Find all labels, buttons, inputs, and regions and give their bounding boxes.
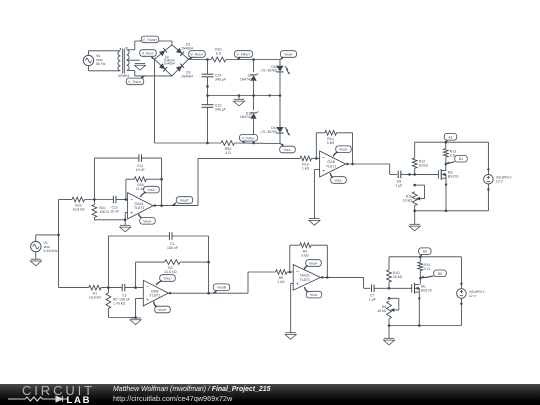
ground below V1 <box>30 259 41 266</box>
svg-text:TL071: TL071 <box>299 278 309 282</box>
svg-text:VoutT: VoutT <box>180 199 189 203</box>
node label Vout+ (OA10 top supply) <box>304 260 321 270</box>
op-amp OA10 TL071 <box>293 265 320 291</box>
node label V_Trans- <box>126 76 145 85</box>
R18 wiper wire <box>413 184 424 199</box>
voltage source Vs (sine 60 Hz) <box>83 51 118 71</box>
svg-text:Vout-: Vout- <box>284 148 292 152</box>
svg-text:10 nF: 10 nF <box>110 210 119 214</box>
svg-text:5 kΩ: 5 kΩ <box>327 141 335 145</box>
node label V_Filter+ <box>235 51 253 60</box>
footer bar <box>0 384 540 405</box>
input trunk wire <box>57 200 60 288</box>
svg-text:V_Rect+: V_Rect+ <box>190 53 203 57</box>
svg-text:1N4742A: 1N4742A <box>240 77 255 81</box>
node label V_Filter- <box>240 135 258 144</box>
MOSFET M1 BS170 <box>412 283 432 294</box>
OA11 + input to ground <box>120 212 131 232</box>
svg-text:150 Ω: 150 Ω <box>100 210 110 214</box>
zener diode D10 1N4742A <box>240 96 258 144</box>
svg-text:Vout+: Vout+ <box>158 308 167 312</box>
node label V_Rect+ <box>189 51 206 60</box>
wire C8 to gate <box>408 173 438 176</box>
feedback wire up from R22 junction <box>94 158 138 199</box>
capacitor C2 100 nF <box>119 284 143 302</box>
node label B0 <box>419 270 446 279</box>
svg-text:A1: A1 <box>448 135 452 139</box>
svg-text:A0: A0 <box>423 250 427 254</box>
node label Vout+ (OA11 bottom supply) <box>139 214 156 224</box>
op-amp OA11 TL071 <box>128 193 153 219</box>
svg-text:10 nF: 10 nF <box>136 168 145 172</box>
svg-text:5 Ω: 5 Ω <box>225 151 231 155</box>
svg-text:−: − <box>130 197 133 203</box>
node label Vout+ (OA9 bottom supply) <box>154 302 171 313</box>
resistor R13 5 Ohm <box>443 142 456 170</box>
op-amp OA9 TL071 <box>143 280 168 306</box>
resistor R11 5 Ohm <box>418 257 431 285</box>
svg-text:1 µF: 1 µF <box>395 184 402 188</box>
resistor R10 20 kOhm <box>387 257 403 289</box>
wire R22 to C12 <box>85 198 114 201</box>
svg-text:1.43 kΩ: 1.43 kΩ <box>113 302 126 306</box>
resistor R12 20 kOhm <box>412 142 428 174</box>
svg-text:Vout+: Vout+ <box>143 219 152 223</box>
svg-text:9.16 kHz: 9.16 kHz <box>44 249 58 253</box>
wire C7 to gate <box>388 287 412 290</box>
node label A1 <box>444 134 457 143</box>
capacitor C12 10 nF <box>110 196 127 214</box>
svg-text:VoutB: VoutB <box>217 286 227 290</box>
node label Vout- (OA10 bottom supply) <box>305 287 322 298</box>
ground below upper driver <box>409 211 420 231</box>
capacitor C10 340 uF <box>202 96 226 144</box>
svg-text:12 V: 12 V <box>496 180 504 184</box>
svg-text:1N4004: 1N4004 <box>181 46 193 50</box>
svg-text:BS170: BS170 <box>448 175 459 179</box>
R8 wiper wire <box>388 297 399 310</box>
M2 source wire <box>445 178 447 211</box>
node label Vout- (bottom) <box>280 144 296 153</box>
transformer center tap to ground <box>130 60 146 70</box>
svg-text:Vout-: Vout- <box>310 293 318 297</box>
svg-text:Vout+: Vout+ <box>284 53 293 57</box>
svg-text:−: − <box>146 285 149 291</box>
svg-text:340 µF: 340 µF <box>215 108 226 112</box>
svg-text:Vout-: Vout- <box>148 188 156 192</box>
capacitor C8 1 uF <box>390 171 410 188</box>
resistor R20 21 kOhm <box>134 177 163 191</box>
OA10 + input to ground <box>285 283 296 339</box>
svg-text:5 kΩ: 5 kΩ <box>301 253 309 257</box>
svg-text:5 Ω: 5 Ω <box>216 52 222 56</box>
wire R21 to ground node <box>94 219 125 221</box>
potentiometer R8 10 kOhm <box>377 301 399 319</box>
wire bridge DC- down to bottom rail <box>154 59 156 143</box>
svg-text:TL071: TL071 <box>134 206 144 210</box>
svg-text:1 µF: 1 µF <box>369 297 376 301</box>
voltage source VSUPPLY 12 V (upper) <box>484 142 513 211</box>
R20 branch wire <box>125 179 135 201</box>
resistor R4 5 kOhm <box>300 243 328 257</box>
diode D2 (bridge top-right) <box>176 48 184 56</box>
diode D4 (bridge bottom-left) <box>159 63 167 71</box>
svg-text:Vout-: Vout- <box>335 179 343 183</box>
svg-text:340 µF: 340 µF <box>215 77 226 81</box>
OA11 output wire <box>153 204 198 206</box>
diode D3 (bridge bottom-right) <box>176 64 184 72</box>
R0 to ground node <box>108 317 135 319</box>
OA9 output wire <box>168 292 248 294</box>
svg-text:V_Trans+: V_Trans+ <box>143 38 158 42</box>
resistor R21 150 Ohm <box>92 200 109 220</box>
voltage source VSUPPLY 12 V (lower) <box>457 257 486 326</box>
bottom rail wire <box>155 142 281 145</box>
svg-text:LTL-307EE: LTL-307EE <box>261 130 279 134</box>
wire to R16 <box>198 157 300 159</box>
svg-text:1N4004: 1N4004 <box>164 62 175 66</box>
R2 branch wire <box>134 262 164 289</box>
resistor R16 1 kOhm <box>300 156 320 171</box>
LED D14 LTL-307EE <box>261 96 290 144</box>
svg-text:20 kΩ: 20 kΩ <box>393 275 403 279</box>
op-amp OA8 TL071 <box>320 151 346 177</box>
node label V_Rect- <box>140 50 157 60</box>
potentiometer R18 10 kOhm <box>403 192 425 206</box>
feedback wire up from R0 junction <box>108 236 168 288</box>
MOSFET M2 BS170 <box>438 169 458 180</box>
resistor RS1 5 Ohm <box>211 48 226 62</box>
middle rail wire <box>206 94 281 97</box>
svg-text:V_Filter+: V_Filter+ <box>237 53 251 57</box>
svg-text:10 kΩ: 10 kΩ <box>403 199 413 203</box>
capacitor C7 1 uF <box>364 285 389 302</box>
svg-text:16.8 kΩ: 16.8 kΩ <box>89 296 102 300</box>
svg-text:5 Ω: 5 Ω <box>424 267 430 271</box>
svg-text:1 kΩ: 1 kΩ <box>277 280 285 284</box>
node label B1 <box>445 155 468 165</box>
capacitor C1 100 nF <box>167 232 209 250</box>
svg-text:Vout+: Vout+ <box>339 148 348 152</box>
resistor R6 1 kOhm <box>276 270 294 285</box>
svg-text:+: + <box>296 282 299 288</box>
node label V_Trans+ <box>140 36 159 43</box>
wire up to OA10 row <box>248 272 276 293</box>
capacitor C14 340 uF <box>202 60 226 96</box>
OA10 feedback right vertical <box>326 245 329 279</box>
svg-text:+: + <box>322 168 325 174</box>
top rail wire <box>189 58 281 61</box>
svg-text:−: − <box>322 155 325 161</box>
svg-text:10 kΩ: 10 kΩ <box>377 309 387 313</box>
svg-text:1N4742A: 1N4742A <box>240 115 255 119</box>
svg-text:20 kΩ: 20 kΩ <box>419 163 429 167</box>
node label A0 <box>419 248 432 257</box>
node label Vout+ (OA8 top supply) <box>333 146 351 157</box>
diode D1 (bridge top-left) <box>159 48 167 56</box>
OA9 + input to ground <box>130 299 143 325</box>
svg-text:1 kΩ: 1 kΩ <box>302 167 310 171</box>
ground on middle rail <box>233 96 244 106</box>
bridge rectifier diamond wires <box>155 45 189 76</box>
OA10 output wire <box>321 276 364 288</box>
wire up to OA8 row <box>197 158 199 205</box>
node label Vout- (OA11 top supply) <box>141 186 160 197</box>
svg-text:100 nF: 100 nF <box>119 298 130 302</box>
OA8 feedback right vertical <box>351 133 354 166</box>
bridge labels D1 D3 D6 1N4004 <box>164 43 193 79</box>
resistor R0 1.43 kOhm <box>106 286 126 317</box>
svg-text:−: − <box>296 269 299 275</box>
LED D16 LTL-307EE <box>261 60 290 96</box>
svg-text:12 V: 12 V <box>469 294 477 298</box>
resistor R1 16.8 kOhm <box>89 285 122 300</box>
svg-text:V_Rect-: V_Rect- <box>142 52 154 56</box>
OA8 output wire <box>346 163 390 175</box>
bottom rail (lower driver) <box>388 319 462 327</box>
OA8 + input to ground <box>309 170 320 226</box>
top rail (upper driver) <box>415 141 489 144</box>
svg-text:+: + <box>146 297 149 303</box>
svg-text:B1: B1 <box>459 157 463 161</box>
svg-text:100 nF: 100 nF <box>167 246 178 250</box>
voltage source V1 (sine 9.16 kHz) <box>31 235 59 259</box>
svg-text:TL071: TL071 <box>150 294 160 298</box>
wire secondary top to bridge AC1 <box>130 41 172 50</box>
node label Vout- (OA9 top supply) <box>156 275 175 286</box>
top rail (lower driver) <box>389 255 461 258</box>
M1 source wire <box>418 292 420 325</box>
svg-text:Vout-: Vout- <box>164 277 172 281</box>
node label Vout- (OA8 bottom supply) <box>330 173 346 183</box>
node label Vout+ (top) <box>280 51 297 60</box>
resistor R22 16.8 kOhm <box>72 197 85 212</box>
bottom rail (upper driver) <box>413 206 488 213</box>
capacitor C11 10 nF <box>136 154 162 172</box>
wire secondary bottom to bridge AC2 <box>130 71 172 76</box>
svg-text:TL071: TL071 <box>326 164 336 168</box>
svg-text:XFMR1: XFMR1 <box>118 74 130 78</box>
wire trunk to R22 <box>59 199 72 201</box>
svg-text:21.6 kΩ: 21.6 kΩ <box>164 270 177 274</box>
svg-text:LTL-307EE: LTL-307EE <box>261 69 279 73</box>
footer title text <box>113 386 270 404</box>
resistor R14 5 kOhm <box>325 130 353 145</box>
resistor R2 21.6 kOhm <box>164 260 209 274</box>
node label VoutT <box>172 197 193 206</box>
svg-text:1N4004: 1N4004 <box>181 74 193 78</box>
resistor RS2 5 Ohm <box>221 141 235 155</box>
zener diode D8 1N4742A <box>240 60 258 96</box>
svg-text:60 Hz: 60 Hz <box>96 62 106 66</box>
ground below lower driver <box>383 326 394 345</box>
feedback right vertical <box>160 158 163 207</box>
svg-text:BS170: BS170 <box>421 288 432 292</box>
transformer XFMR1 <box>118 47 130 78</box>
svg-text:B0: B0 <box>438 272 442 276</box>
OA10 feedback wire <box>289 245 300 273</box>
svg-text:Vout+: Vout+ <box>309 262 318 266</box>
node label VoutB <box>213 284 230 293</box>
svg-text:16.8 kΩ: 16.8 kΩ <box>72 208 85 212</box>
svg-text:+: + <box>130 210 133 216</box>
C1 feedback right vertical <box>207 236 210 295</box>
svg-text:V_Trans-: V_Trans- <box>128 80 142 84</box>
wire trunk to R1 <box>59 287 89 289</box>
svg-text:V_Filter-: V_Filter- <box>242 136 255 140</box>
OA8 feedback wire <box>315 133 325 160</box>
CircuitLab logo <box>0 384 120 405</box>
